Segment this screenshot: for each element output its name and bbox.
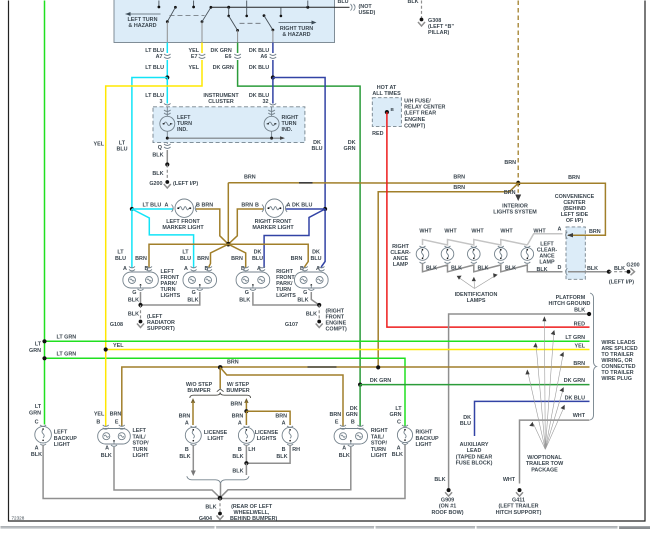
svg-text:BLK: BLK: [392, 452, 403, 458]
lamp right front park/turn 3: [236, 267, 270, 291]
connector conv A: [566, 232, 568, 239]
wire BLK right tail ground: [220, 447, 351, 498]
svg-text:BRN: BRN: [275, 413, 287, 419]
svg-text:FUSE BLOCK): FUSE BLOCK): [456, 461, 493, 467]
wire BLK dashed to G404: [219, 498, 221, 512]
lamp left front park/turn 1: [123, 267, 158, 291]
switch internal bus: [211, 6, 335, 8]
svg-text:G: G: [303, 290, 307, 296]
svg-text:BLK: BLK: [152, 171, 163, 177]
svg-text:SUPPORT): SUPPORT): [147, 326, 175, 332]
svg-text:LT GRN: LT GRN: [57, 351, 77, 357]
svg-text:BLK: BLK: [297, 298, 308, 304]
svg-text:B: B: [96, 419, 100, 425]
svg-text:BLU: BLU: [252, 256, 263, 262]
svg-text:BLK: BLK: [179, 454, 190, 460]
wire BLK park lamp 2 to splice: [141, 292, 200, 305]
svg-text:MARKER LIGHT: MARKER LIGHT: [162, 225, 204, 231]
svg-text:BLK: BLK: [339, 453, 350, 459]
svg-text:(TAPED NEAR: (TAPED NEAR: [456, 454, 493, 460]
svg-text:LIGHTS SYSTEM: LIGHTS SYSTEM: [493, 210, 537, 216]
lamp right clearance: [416, 246, 429, 263]
wire BLK license down: [245, 463, 247, 475]
svg-text:G: G: [192, 290, 196, 296]
lamp license light 1: [185, 426, 201, 445]
wire BRN to license LH: [245, 411, 247, 425]
node LT GRN splice 1: [42, 339, 46, 343]
svg-text:YEL: YEL: [113, 343, 124, 349]
svg-text:IND.: IND.: [177, 127, 188, 133]
wire BLK conv D to G200: [568, 271, 609, 273]
svg-text:TAIL/: TAIL/: [371, 434, 385, 440]
svg-text:G411: G411: [512, 497, 525, 503]
node LT GRN splice 2: [42, 356, 46, 360]
svg-text:A: A: [238, 421, 242, 427]
svg-text:DK GRN: DK GRN: [370, 378, 391, 384]
lamp right turn indicator: [264, 107, 279, 138]
svg-text:A: A: [287, 203, 291, 209]
lamp left backup light: [29, 404, 51, 458]
svg-text:Q: Q: [158, 145, 162, 151]
wire BRN license w/o step: [191, 398, 195, 425]
wire BLU not used: [335, 6, 350, 8]
svg-text:C: C: [35, 420, 39, 426]
svg-text:BRN: BRN: [330, 412, 342, 418]
svg-text:BLK: BLK: [505, 265, 516, 271]
svg-text:BRN: BRN: [568, 175, 580, 181]
lamp right backup light: [392, 425, 413, 458]
wire LT BLU switch output: [166, 43, 168, 54]
svg-text:BLK: BLK: [451, 265, 462, 271]
svg-text:DK BLU: DK BLU: [292, 203, 312, 209]
svg-text:B: B: [282, 447, 286, 453]
svg-text:BRN: BRN: [232, 413, 244, 419]
mechanical link dashes 2: [240, 22, 263, 24]
wire BRN feed from interior bus: [227, 183, 229, 245]
svg-text:E6: E6: [225, 54, 232, 60]
wire DK BLU below A6: [272, 60, 274, 78]
svg-text:A: A: [342, 445, 346, 451]
svg-text:GRN: GRN: [390, 412, 402, 418]
svg-text:BEHIND BUMPER): BEHIND BUMPER): [230, 516, 278, 522]
wire BLK license 1 with arrow: [191, 445, 196, 476]
svg-text:LIGHT: LIGHT: [207, 436, 224, 442]
node DK BLU splice: [271, 75, 275, 79]
svg-text:LEFT: LEFT: [54, 430, 68, 436]
svg-text:PLATFORM: PLATFORM: [556, 295, 586, 301]
instrument cluster box: [153, 107, 305, 143]
node DK GRN trailer junction: [358, 383, 362, 387]
page bottom border: [8, 520, 646, 522]
wire BRN to park lamp B3: [228, 244, 245, 268]
node BRN central junction: [226, 242, 231, 247]
svg-text:RH: RH: [292, 447, 300, 453]
svg-text:A7: A7: [156, 54, 163, 60]
wire BRN branch to convenience drop: [378, 183, 518, 367]
svg-text:LAMPS: LAMPS: [467, 298, 486, 304]
svg-text:LIGHTS: LIGHTS: [276, 293, 296, 299]
svg-text:G404: G404: [199, 516, 212, 522]
svg-text:DK BLU: DK BLU: [249, 65, 269, 71]
node YEL splice: [104, 347, 108, 351]
node G107 splice: [317, 303, 321, 307]
svg-text:DK GRN: DK GRN: [213, 65, 234, 71]
svg-text:GRN: GRN: [29, 411, 41, 417]
page left border: [8, 1, 10, 522]
svg-text:BLK: BLK: [408, 0, 419, 5]
svg-text:E: E: [115, 419, 119, 425]
svg-text:LAMP: LAMP: [393, 262, 409, 268]
wire BLK license LH: [245, 445, 247, 463]
ground G108: [137, 320, 144, 328]
svg-text:TURN: TURN: [133, 447, 148, 453]
svg-text:COMPT): COMPT): [326, 327, 347, 333]
node BRN right marker junction: [323, 207, 327, 211]
svg-text:BRN: BRN: [110, 411, 122, 417]
convenience center box: [566, 227, 585, 279]
wire WHT trailer: [520, 420, 590, 483]
wire YEL trailer bus: [106, 349, 590, 351]
svg-text:LIGHTS: LIGHTS: [257, 436, 277, 442]
ground G200 right: [627, 268, 635, 275]
wire BLK park lamp 3: [253, 292, 319, 305]
svg-text:LT: LT: [117, 250, 124, 256]
svg-text:(LEFT I/P): (LEFT I/P): [173, 181, 198, 187]
svg-text:E7: E7: [191, 54, 198, 60]
svg-text:G107: G107: [285, 322, 298, 328]
svg-text:DK: DK: [312, 250, 320, 256]
node LT BLU marker splice: [130, 207, 134, 211]
svg-text:YEL: YEL: [94, 142, 105, 148]
svg-text:B: B: [351, 420, 355, 426]
svg-text:A6: A6: [260, 54, 267, 60]
svg-text:WHT: WHT: [533, 228, 546, 234]
svg-text:ALL TIMES: ALL TIMES: [372, 91, 401, 97]
wire BRN to convenience center A: [518, 183, 605, 235]
svg-text:BACKUP: BACKUP: [54, 436, 77, 442]
svg-text:RED: RED: [574, 321, 585, 327]
svg-text:G: G: [132, 290, 136, 296]
wire BRN license w/ step: [244, 398, 248, 411]
svg-text:A: A: [105, 445, 109, 451]
connector A7: [164, 54, 171, 59]
svg-text:RIGHT: RIGHT: [371, 428, 388, 434]
svg-text:BLK: BLK: [587, 266, 598, 272]
svg-text:BLK: BLK: [537, 267, 548, 273]
svg-text:BRN: BRN: [504, 190, 516, 196]
node BRN license LH/RH splice: [244, 409, 248, 413]
wire LT GRN vertical from top: [44, 1, 46, 425]
svg-text:A: A: [123, 266, 127, 272]
svg-text:W/ STEP: W/ STEP: [227, 382, 250, 388]
svg-text:W/OPTIONAL: W/OPTIONAL: [527, 455, 562, 461]
lamp left tail/stop/turn light: [98, 425, 131, 446]
svg-text:WHT: WHT: [503, 477, 516, 483]
svg-text:BRN: BRN: [135, 256, 147, 262]
svg-text:BLU: BLU: [180, 256, 191, 262]
wire DK BLU switch output: [272, 43, 274, 54]
svg-text:LT: LT: [182, 250, 189, 256]
svg-text:WHT: WHT: [500, 228, 513, 234]
wire DK GRN to right tail B: [359, 385, 361, 427]
svg-text:BRN: BRN: [227, 359, 239, 365]
connector E6: [234, 54, 241, 59]
wire BLK left backup ground: [43, 445, 220, 499]
svg-text:BLK: BLK: [232, 454, 243, 460]
svg-text:BLK: BLK: [276, 454, 287, 460]
svg-text:RIGHT: RIGHT: [416, 430, 433, 436]
wire BLK dashed to G107: [318, 305, 320, 320]
wire YEL down-left bus: [106, 60, 202, 350]
wire DK BLU to park lamp A4: [322, 209, 326, 268]
svg-text:HITCH GROUND: HITCH GROUND: [548, 301, 590, 307]
svg-text:PILLAR): PILLAR): [428, 30, 449, 36]
ground G404: [217, 512, 224, 520]
lamp identification 3: [495, 246, 508, 263]
svg-text:(ON #1: (ON #1: [439, 504, 456, 510]
lamp license RH: [282, 426, 298, 445]
mechanical link dashes 1: [170, 15, 205, 17]
svg-text:BRN: BRN: [202, 203, 214, 209]
svg-text:LT: LT: [35, 342, 42, 348]
svg-text:DK GRN: DK GRN: [564, 378, 585, 384]
splice mark on BRN tail bus: [308, 366, 337, 368]
wire BLK dashed to G200 right: [609, 271, 627, 273]
license lights fork from BRN junction: [190, 367, 251, 398]
identification lamps pointer arrows: [460, 276, 495, 289]
node platform hitch splice: [587, 312, 591, 316]
cluster internal ground bus: [166, 136, 285, 140]
wire BLK park lamps left: [140, 292, 142, 305]
wire DK GRN trailer bus: [360, 384, 589, 386]
wire BRN tail bus: [122, 367, 590, 427]
node G404 junction: [218, 496, 223, 501]
svg-text:& HAZARD: & HAZARD: [282, 32, 310, 38]
svg-text:YEL: YEL: [575, 343, 586, 349]
svg-text:B: B: [255, 203, 259, 209]
svg-text:BLU: BLU: [338, 0, 349, 5]
svg-text:TRAILER TOW: TRAILER TOW: [526, 461, 564, 467]
switch feed stub 2: [192, 1, 195, 9]
wire DK BLU to right bus: [273, 78, 325, 210]
svg-text:G200: G200: [149, 181, 162, 187]
svg-text:G200: G200: [626, 263, 639, 269]
ground G909: [445, 488, 452, 496]
wire BLK right backup ground: [220, 445, 405, 499]
svg-text:LIGHT: LIGHT: [371, 453, 388, 459]
wire BLK brace to G404: [220, 483, 222, 498]
switch bus top stub: [306, 1, 309, 9]
svg-text:BRN: BRN: [291, 256, 303, 262]
lamp left front park/turn 2: [183, 267, 217, 291]
svg-text:C: C: [397, 420, 401, 426]
wire LT GRN to right backup: [45, 358, 406, 426]
svg-text:D: D: [558, 265, 562, 271]
svg-text:E: E: [335, 420, 339, 426]
ground G411: [516, 488, 523, 496]
svg-text:BRN: BRN: [231, 402, 243, 408]
svg-text:RED: RED: [372, 131, 383, 137]
svg-text:BLK: BLK: [128, 312, 139, 318]
wire LT BLU to left marker A: [132, 208, 173, 210]
wire BLK from cluster: [166, 142, 168, 144]
svg-text:LAMP: LAMP: [539, 259, 555, 265]
switch blade LT BLU: [166, 6, 177, 43]
connector Q cluster exit: [164, 144, 171, 149]
svg-text:PACKAGE: PACKAGE: [531, 467, 558, 473]
wire LT BLU to park lamp A2: [132, 209, 194, 268]
connector right turn ind: [268, 110, 275, 115]
connector pin 32: [270, 104, 277, 106]
wire BLK platform hitch ground: [449, 314, 589, 490]
switch blade DK GRN: [229, 16, 239, 43]
svg-text:BLK: BLK: [434, 477, 445, 483]
svg-text:LICENSE: LICENSE: [255, 430, 279, 436]
svg-text:STOP/: STOP/: [133, 441, 150, 447]
svg-text:DK BLU: DK BLU: [565, 395, 585, 401]
svg-text:AUXILIARY: AUXILIARY: [460, 442, 489, 448]
svg-text:3: 3: [160, 99, 163, 105]
lamp left front marker light: [172, 199, 197, 217]
svg-text:LT BLU: LT BLU: [145, 65, 164, 71]
svg-text:BRN: BRN: [244, 174, 256, 180]
svg-text:BRN: BRN: [179, 413, 191, 419]
fuse box U/H fuse relay center: [372, 98, 401, 127]
page right border: [644, 1, 646, 522]
wire BRN dashed arrow to interior lights system: [515, 183, 521, 201]
wire BRN left marker B: [196, 209, 228, 244]
lamp identification 1: [441, 246, 454, 263]
connector pin 3: [164, 104, 171, 106]
switch blade YEL: [201, 6, 213, 43]
svg-text:A: A: [184, 266, 188, 272]
svg-text:DK: DK: [254, 250, 262, 256]
svg-text:A: A: [35, 445, 39, 451]
svg-text:BLU: BLU: [115, 256, 126, 262]
svg-text:G: G: [245, 290, 249, 296]
lamp identification 2: [468, 246, 481, 263]
svg-text:BLK: BLK: [232, 468, 243, 474]
svg-text:IND.: IND.: [282, 127, 293, 133]
svg-text:DK: DK: [463, 415, 471, 421]
svg-text:LIGHT: LIGHT: [416, 442, 433, 448]
connector E7: [199, 54, 206, 59]
wire DK BLU auxiliary lead: [475, 401, 590, 436]
svg-text:WHT: WHT: [419, 228, 432, 234]
wire DK BLU right marker A: [286, 208, 325, 210]
wire LT BLU to cluster pin 3: [166, 78, 168, 104]
bottom UI band: [1, 526, 650, 529]
svg-text:BUMPER: BUMPER: [187, 388, 210, 394]
svg-text:BRN: BRN: [453, 175, 465, 181]
svg-text:USED): USED): [359, 10, 376, 16]
wire BLK left tail ground: [114, 447, 220, 498]
svg-text:WIRE PLUG: WIRE PLUG: [601, 376, 632, 382]
svg-text:BLK: BLK: [152, 153, 163, 159]
svg-text:TURN: TURN: [371, 447, 386, 453]
wire BRN to right tail E: [220, 367, 343, 426]
svg-text:(LEFT TRAILER: (LEFT TRAILER: [498, 504, 538, 510]
svg-text:TAIL/: TAIL/: [133, 434, 147, 440]
svg-text:BRN: BRN: [573, 361, 585, 367]
svg-text:COMPT): COMPT): [404, 124, 425, 130]
wire LT GRN trailer bus: [45, 340, 590, 342]
wire BRN to park lamp B4: [228, 244, 308, 268]
node BLK splice right: [607, 270, 611, 274]
svg-text:LT: LT: [395, 406, 402, 412]
svg-text:CLUSTER: CLUSTER: [208, 99, 234, 105]
svg-text:BUMPER: BUMPER: [226, 388, 249, 394]
lamp right tail/stop/turn light: [334, 425, 367, 446]
svg-text:BRN: BRN: [231, 256, 243, 262]
wire LT BLU to park lamp A1: [131, 209, 133, 268]
node G108 splice: [138, 303, 142, 307]
connector A6: [270, 54, 277, 59]
svg-text:W/O STEP: W/O STEP: [186, 382, 213, 388]
right turn & hazard arrow: [279, 21, 317, 25]
wire DK BLU to cluster pin 32: [272, 78, 274, 104]
svg-text:A: A: [282, 421, 286, 427]
svg-text:BRN: BRN: [241, 203, 253, 209]
svg-text:BLK: BLK: [205, 504, 216, 510]
wire BLK dashed to G200: [166, 165, 168, 181]
svg-text:B: B: [238, 447, 242, 453]
bus junction for DK GRN: [227, 6, 230, 17]
svg-text:BLK: BLK: [574, 307, 585, 313]
svg-text:LT GRN: LT GRN: [57, 334, 77, 340]
svg-text:A: A: [165, 203, 169, 209]
wire DK BLU to park lamp A3: [264, 209, 325, 268]
wire BLK license RH: [246, 445, 290, 463]
wire BRN to park lamp B1: [149, 244, 228, 268]
svg-text:MARKER LIGHT: MARKER LIGHT: [252, 225, 294, 231]
svg-text:BLK: BLK: [101, 453, 112, 459]
connector not used: [351, 4, 356, 11]
svg-text:LT BLU: LT BLU: [143, 203, 162, 209]
svg-text:B: B: [185, 447, 189, 453]
wire BRN to license RH: [246, 411, 290, 425]
svg-text:72328: 72328: [12, 516, 25, 521]
svg-text:GRN: GRN: [29, 348, 41, 354]
svg-text:WHT: WHT: [444, 228, 457, 234]
svg-text:BLK: BLK: [31, 452, 42, 458]
svg-text:G108: G108: [110, 322, 123, 328]
svg-text:YEL: YEL: [94, 411, 105, 417]
svg-text:LIGHTS: LIGHTS: [161, 293, 181, 299]
turn/hazard switch assembly box: [114, 0, 335, 43]
wire BRN right marker B: [228, 209, 263, 244]
svg-text:BLK: BLK: [306, 312, 317, 318]
wire YEL to left tail B: [105, 350, 107, 427]
lamp right front park/turn 4: [295, 267, 329, 291]
lamp left clearance: [521, 246, 534, 263]
splice mark on BRN bus: [299, 182, 313, 184]
svg-text:(LEFT I/P): (LEFT I/P): [609, 280, 634, 286]
svg-text:ROOF BOW): ROOF BOW): [431, 510, 463, 516]
wire BRN to park lamp B2: [209, 244, 228, 268]
svg-text:A: A: [558, 227, 562, 233]
clearance/identification lamps WHT bus: [423, 234, 563, 245]
fuse terminal B: [385, 110, 389, 114]
ground G107: [316, 320, 323, 328]
left turn & hazard arrow: [126, 12, 161, 16]
wire BRN bus to left: [228, 182, 518, 185]
node LT BLU splice: [165, 75, 169, 79]
arrow into conv A: [567, 233, 573, 237]
node BLK splice: [165, 162, 169, 166]
svg-text:& HAZARD: & HAZARD: [128, 23, 156, 29]
svg-text:DK: DK: [350, 406, 358, 412]
